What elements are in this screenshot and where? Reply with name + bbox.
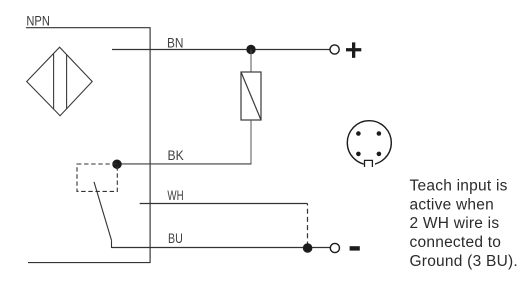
teach button dashed box	[77, 164, 117, 191]
terminal minus circle	[330, 243, 339, 252]
connector keyway blank	[364, 160, 375, 169]
svg-text:Teach input is: Teach input is	[410, 178, 508, 195]
wire dashed teach link	[307, 204, 309, 245]
sensor symbol diamond	[27, 47, 93, 116]
terminal plus circle	[330, 45, 339, 54]
svg-text:BU: BU	[168, 231, 183, 246]
annotation text	[410, 178, 518, 270]
wire BU	[112, 247, 331, 249]
svg-text:NPN: NPN	[26, 14, 50, 29]
sensor box outline	[26, 28, 150, 263]
minus sign	[350, 246, 360, 250]
connector pin 2	[377, 131, 382, 136]
wire switch bottom stub	[111, 240, 113, 248]
node BK junction	[112, 159, 122, 169]
connector pin 1	[356, 131, 361, 136]
wire BN	[112, 49, 330, 51]
svg-text:connected to: connected to	[410, 234, 502, 251]
connector keyway notch	[365, 160, 373, 167]
wire resistor bottom lead	[250, 120, 252, 164]
resistor load	[241, 72, 261, 120]
wire resistor top lead	[250, 50, 252, 73]
svg-text:BN: BN	[167, 36, 184, 51]
svg-text:2 WH wire is: 2 WH wire is	[410, 215, 500, 232]
connector pin 4	[377, 152, 382, 157]
svg-text:WH: WH	[167, 188, 183, 203]
plus sign	[346, 42, 361, 58]
connector pin 3	[356, 152, 361, 157]
svg-text:active when: active when	[410, 196, 495, 213]
svg-text:Ground (3 BU).: Ground (3 BU).	[410, 253, 518, 270]
connector M12 body	[347, 121, 391, 165]
switch lever	[94, 182, 112, 241]
node BU junction	[303, 243, 313, 253]
wire BK	[117, 163, 252, 165]
node BN junction	[246, 45, 255, 54]
svg-text:BK: BK	[168, 148, 185, 163]
wire WH	[140, 203, 308, 205]
